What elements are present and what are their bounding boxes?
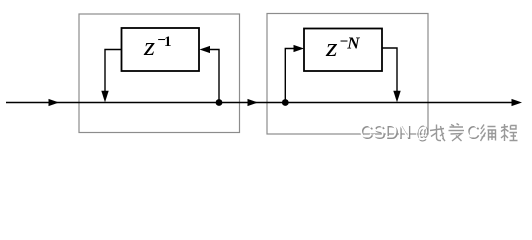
arrowhead input bbox=[49, 99, 60, 106]
arrowhead into zN left side bbox=[294, 45, 305, 52]
node junction dot right bbox=[282, 99, 289, 106]
node junction dot left bbox=[216, 99, 223, 106]
watermark glyph ai bbox=[449, 124, 465, 142]
wire z1 output: box left to down arrow bbox=[105, 50, 122, 94]
wire main signal line bbox=[6, 102, 517, 104]
wire zN output: box right side to down arrow bbox=[382, 48, 397, 93]
watermark glyph bian bbox=[481, 125, 496, 142]
watermark glyph wo bbox=[430, 125, 445, 142]
outer frame left (integrator section) bbox=[79, 14, 240, 133]
arrowhead mid bbox=[248, 99, 259, 106]
svg-text:z: z bbox=[143, 32, 155, 61]
watermark glyph cheng bbox=[501, 124, 518, 141]
delay block z^-N bbox=[304, 29, 382, 72]
wire zN input: node up and into box left side bbox=[285, 49, 294, 103]
arrowhead into z1 right side bbox=[200, 46, 211, 53]
svg-text:C: C bbox=[466, 121, 479, 141]
outer frame right (comb section) bbox=[267, 14, 428, 135]
svg-text:CSDN: CSDN bbox=[359, 121, 410, 141]
svg-text:N: N bbox=[346, 33, 360, 52]
svg-text:1: 1 bbox=[164, 34, 172, 50]
wire z1 input: node up and into box right side bbox=[209, 50, 219, 103]
delay block z^-1 bbox=[122, 28, 200, 71]
arrowhead down onto main line bbox=[101, 91, 108, 103]
svg-text:@: @ bbox=[415, 121, 428, 141]
arrowhead output bbox=[512, 99, 523, 106]
svg-text:z: z bbox=[325, 33, 338, 62]
arrowhead down onto main line right bbox=[393, 91, 400, 103]
